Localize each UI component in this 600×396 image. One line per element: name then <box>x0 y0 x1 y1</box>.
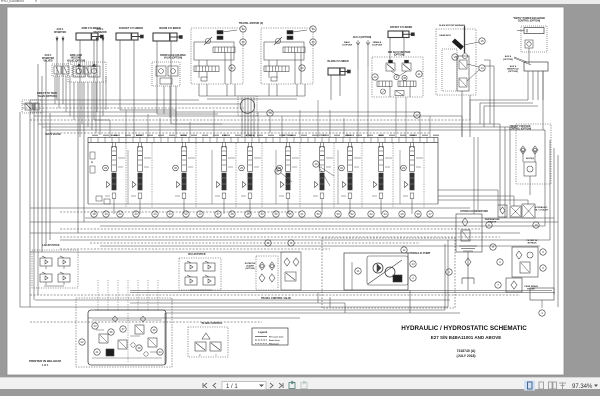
ref circle 30 <box>173 165 179 171</box>
two page icon <box>549 382 557 389</box>
svg-text:25: 25 <box>246 212 250 216</box>
wire <box>527 71 529 100</box>
main valve section RH TRAVEL <box>279 143 299 215</box>
svg-text:20: 20 <box>118 212 122 216</box>
ref circle 13 <box>410 261 416 267</box>
pilot cap <box>133 182 137 188</box>
svg-text:33: 33 <box>260 212 264 216</box>
2nd aux spool right <box>398 81 416 87</box>
wire <box>77 82 79 233</box>
section side links <box>326 157 333 159</box>
diverter valve V2 <box>74 64 96 76</box>
spool RH TRAVEL <box>286 173 290 190</box>
pilot wire <box>157 280 159 310</box>
port tick marks <box>91 137 434 142</box>
port label row <box>92 135 439 136</box>
ref circle 37 <box>120 326 126 332</box>
pilot cap <box>374 182 378 188</box>
pilot riser <box>125 143 127 208</box>
travel spool valve <box>213 47 235 53</box>
wire <box>119 40 121 110</box>
check valve <box>465 258 471 266</box>
ref circle 36 <box>315 211 321 217</box>
main valve top rail <box>88 136 438 138</box>
wire <box>90 242 420 244</box>
fit page icon <box>539 382 544 389</box>
svg-text:VALVE (OPTION): VALVE (OPTION) <box>37 95 56 98</box>
spring cap <box>410 193 414 199</box>
spool AUX <box>379 173 383 190</box>
spool 2ND AUX <box>348 173 352 190</box>
ref circle 9 <box>288 240 294 246</box>
spool BOOM <box>182 173 186 190</box>
svg-text:45: 45 <box>403 76 407 80</box>
ref circle 37 <box>275 168 281 174</box>
ref circle 38 <box>136 345 142 351</box>
wire <box>329 110 331 137</box>
section side links <box>188 157 195 159</box>
leader <box>514 58 531 65</box>
svg-text:74: 74 <box>241 27 245 31</box>
wire <box>247 115 249 137</box>
wire <box>163 86 165 114</box>
ref circle 34 <box>382 211 388 217</box>
wire <box>29 100 31 307</box>
svg-text:TRAVEL CONTROL VALVE: TRAVEL CONTROL VALVE <box>261 297 291 300</box>
svg-text:"DEITH" POWER EXCHANGE: "DEITH" POWER EXCHANGE <box>513 17 546 20</box>
ref circle 25 <box>239 165 245 171</box>
ref circle 21 <box>299 211 305 217</box>
ref circle 12 <box>183 211 189 217</box>
svg-text:24: 24 <box>153 212 157 216</box>
spring cap <box>138 193 142 199</box>
svg-text:28: 28 <box>230 212 234 216</box>
svg-text:ARM CYLINDER: ARM CYLINDER <box>81 27 100 30</box>
svg-text:R/H JOYSTICK: R/H JOYSTICK <box>188 253 206 256</box>
ref circle 24 <box>167 211 173 217</box>
pilot riser <box>195 143 197 208</box>
wire <box>49 113 51 240</box>
pilot cap <box>405 182 409 188</box>
wire <box>73 82 75 120</box>
svg-text:BLADE CYLINDER: BLADE CYLINDER <box>327 60 348 63</box>
wire <box>198 84 200 96</box>
svg-text:AUX 4: AUX 4 <box>505 55 512 58</box>
travel valve check valves <box>113 316 118 322</box>
svg-text:ARM LOAD: ARM LOAD <box>70 54 83 57</box>
arrow <box>96 38 98 41</box>
svg-text:BLADE: BLADE <box>111 134 118 137</box>
ref circle 23 <box>133 211 139 217</box>
svg-text:23: 23 <box>134 212 138 216</box>
power exchange control <box>517 26 547 64</box>
main valve section LH TRAVEL <box>241 143 261 215</box>
wire <box>543 129 545 131</box>
ref circle 24 <box>157 349 163 355</box>
wire <box>493 66 495 127</box>
ref circle 7 <box>495 282 501 288</box>
svg-text:16: 16 <box>453 55 457 59</box>
ref circle 30 <box>335 211 341 217</box>
aux4 manifold <box>524 62 548 71</box>
arm load holding valve <box>68 62 106 82</box>
pilot riser <box>361 143 363 208</box>
last page button <box>279 383 283 388</box>
spring cap <box>248 193 252 199</box>
main valve section SLEW <box>403 143 423 215</box>
svg-text:43: 43 <box>311 40 315 44</box>
wire <box>483 106 485 127</box>
ref circle 13 <box>197 211 203 217</box>
spring cap <box>286 193 290 199</box>
svg-text:23: 23 <box>93 324 97 328</box>
wire <box>37 64 39 295</box>
ref circle 6 <box>486 222 492 228</box>
pilot cap <box>217 182 221 188</box>
wire <box>30 321 262 323</box>
svg-text:30: 30 <box>174 166 178 170</box>
svg-text:40: 40 <box>373 75 377 79</box>
check valve <box>532 146 538 154</box>
wire <box>56 36 58 64</box>
svg-text:41: 41 <box>417 72 421 76</box>
svg-text:(OPTION): (OPTION) <box>503 59 513 61</box>
ref circle 5 <box>540 265 546 271</box>
svg-text:2ND AUX FUNCTION: 2ND AUX FUNCTION <box>388 51 411 54</box>
ref circle 15 <box>479 38 485 44</box>
pilot riser <box>423 143 425 208</box>
ref circle 45 <box>402 75 407 80</box>
svg-text:36: 36 <box>316 212 320 216</box>
ref circle 29 <box>399 211 405 217</box>
ref circle 21 <box>94 349 100 355</box>
svg-text:35: 35 <box>288 212 292 216</box>
wire <box>34 115 462 117</box>
ref circle 14 <box>479 65 485 71</box>
wire <box>30 232 520 234</box>
ref circle 24 <box>152 211 158 217</box>
legend box <box>252 328 288 346</box>
coupler relief valve <box>524 162 536 176</box>
wire <box>304 84 306 96</box>
svg-text:SLEW: SLEW <box>409 135 415 137</box>
ref circle 18 <box>91 211 97 217</box>
wire <box>46 129 543 131</box>
wire <box>164 313 166 365</box>
main valve right edge <box>437 137 439 204</box>
rotate icon 2 (disabled) <box>301 381 307 389</box>
wire <box>296 84 298 96</box>
svg-text:78: 78 <box>268 111 272 115</box>
section side links <box>144 157 151 159</box>
ref circle 1 <box>446 269 452 275</box>
wire <box>30 119 470 121</box>
wire <box>175 86 177 122</box>
pilot cap <box>343 182 347 188</box>
wire <box>276 84 278 96</box>
blade cylinder <box>328 68 350 75</box>
svg-text:13: 13 <box>411 262 415 266</box>
svg-text:22: 22 <box>80 340 84 344</box>
main valve section BUCKET <box>131 143 151 215</box>
wire <box>88 317 300 319</box>
wire <box>30 251 300 253</box>
svg-text:GEAR BOX: GEAR BOX <box>439 34 451 37</box>
next page button <box>270 383 273 388</box>
spool ARM <box>222 173 226 190</box>
svg-text:13: 13 <box>198 212 202 216</box>
svg-text:HOLDING: HOLDING <box>71 58 82 60</box>
main valve section OFFSET <box>313 143 333 215</box>
ref circle 5 <box>540 249 546 255</box>
svg-text:SLEW MOTOR W/BRAKE: SLEW MOTOR W/BRAKE <box>439 24 466 27</box>
svg-text:VALVES: VALVES <box>43 60 53 63</box>
wire <box>22 107 244 109</box>
page number input <box>222 382 266 390</box>
ref circle 29 <box>401 165 407 171</box>
section side links <box>385 157 392 159</box>
wire <box>367 66 369 137</box>
svg-text:10: 10 <box>534 223 538 227</box>
wire <box>438 195 514 197</box>
ref circle 35 <box>151 327 157 333</box>
wire <box>87 82 89 127</box>
pilot riser <box>392 143 394 208</box>
wire <box>41 76 43 252</box>
travel control valve assembly <box>76 298 172 367</box>
drain riser <box>127 150 129 204</box>
wire <box>257 112 259 137</box>
svg-text:97.34%: 97.34% <box>572 384 593 390</box>
filter with bypass <box>512 247 538 277</box>
wire <box>403 38 405 56</box>
section side links <box>254 157 261 159</box>
wire <box>419 112 421 137</box>
right travel motor <box>261 28 313 84</box>
single page view (active) <box>524 381 535 391</box>
svg-text:HYDRAULIC: HYDRAULIC <box>535 206 548 209</box>
wire <box>461 116 463 137</box>
wire <box>542 71 544 100</box>
svg-text:39: 39 <box>416 212 420 216</box>
wire <box>83 82 85 222</box>
svg-text:29: 29 <box>402 166 406 170</box>
wire <box>133 40 135 137</box>
ref circle 32 <box>349 211 355 217</box>
wire <box>35 299 450 301</box>
section side links <box>118 157 125 159</box>
wire <box>85 217 554 219</box>
ref circle 19 <box>103 211 109 217</box>
wire <box>58 76 60 108</box>
hydraulic pump assembly <box>344 253 408 290</box>
pilot wire <box>97 280 99 310</box>
coupler control block <box>516 124 551 195</box>
wire <box>330 75 332 100</box>
pilot wire <box>127 280 129 310</box>
ref circle 35 <box>287 211 293 217</box>
wire <box>81 82 83 124</box>
wire <box>299 110 301 137</box>
spool BLADE <box>112 173 116 190</box>
wire <box>357 70 359 137</box>
spring cap <box>320 193 324 199</box>
wire <box>537 71 539 100</box>
first page button <box>203 383 207 388</box>
svg-text:26: 26 <box>274 212 278 216</box>
ref circle 25 <box>245 211 251 217</box>
ref circle 33 <box>103 165 109 171</box>
ref circle 16 <box>452 54 458 60</box>
wire <box>438 189 498 191</box>
svg-text:74: 74 <box>311 27 315 31</box>
wire <box>281 116 283 137</box>
wire <box>557 155 559 307</box>
pilot wire <box>117 280 119 310</box>
svg-text:(OPTION): (OPTION) <box>508 71 518 73</box>
ref circle 41 <box>416 71 422 77</box>
wire <box>170 41 172 124</box>
leader <box>281 173 292 182</box>
wire <box>395 97 397 137</box>
main valve left edge <box>87 137 89 204</box>
svg-text:30: 30 <box>336 212 340 216</box>
wire <box>409 290 411 313</box>
wire <box>509 130 511 205</box>
ref circle 12 <box>401 247 407 253</box>
leader <box>467 70 479 81</box>
ref circle 42 <box>229 65 235 71</box>
wire <box>344 303 346 313</box>
wire <box>60 239 550 241</box>
svg-text:Pressure Line: Pressure Line <box>269 337 284 339</box>
svg-text:18: 18 <box>92 212 96 216</box>
section side links <box>416 157 423 159</box>
arrow <box>62 38 64 41</box>
ref circle 78 <box>267 110 273 116</box>
pilot riser <box>235 143 237 208</box>
wire <box>94 119 110 121</box>
svg-text:HYDRAULIC RESERVOIR: HYDRAULIC RESERVOIR <box>460 210 488 213</box>
wire <box>244 115 246 137</box>
wire <box>60 236 500 238</box>
svg-text:MANIFOLD: MANIFOLD <box>507 68 519 71</box>
svg-text:CASE DRAIN: CASE DRAIN <box>524 285 538 288</box>
svg-text:Legend: Legend <box>258 330 268 334</box>
wire <box>125 110 127 137</box>
wire <box>175 110 177 137</box>
pilot cap <box>281 182 285 188</box>
svg-text:PRINTED IN BELGIUM: PRINTED IN BELGIUM <box>29 359 61 363</box>
wire <box>60 211 300 213</box>
wire <box>253 115 255 137</box>
ref circle 36 <box>108 329 114 335</box>
slew valve cluster <box>256 256 278 290</box>
wire <box>317 100 319 137</box>
svg-text:29: 29 <box>400 212 404 216</box>
hydraulic reservoir <box>456 214 482 252</box>
ref circle 28 <box>229 211 235 217</box>
svg-text:(JULY 2018): (JULY 2018) <box>456 354 475 358</box>
pilot riser <box>261 143 263 208</box>
wire <box>96 60 98 112</box>
wire <box>497 190 499 205</box>
blade control block <box>188 327 228 357</box>
wire <box>226 84 228 96</box>
drain riser <box>337 150 339 204</box>
right joystick <box>179 258 221 290</box>
ref circle 33 <box>259 211 265 217</box>
ref circle 10 <box>533 222 539 228</box>
wire <box>504 127 506 218</box>
svg-text:AUX3(2): AUX3(2) <box>526 157 534 160</box>
wire <box>99 82 101 135</box>
spool SLEW <box>410 173 414 190</box>
ref circle 23 <box>92 323 98 329</box>
main valve section BLADE <box>105 143 125 215</box>
svg-text:42: 42 <box>300 66 304 70</box>
wire <box>405 97 407 137</box>
ref circle 42 <box>299 65 305 71</box>
wire <box>467 252 469 290</box>
rotate icon <box>289 381 295 389</box>
svg-text:(OPTION): (OPTION) <box>394 55 405 57</box>
wire <box>484 65 494 67</box>
wire <box>130 302 345 304</box>
pilot riser <box>333 143 335 208</box>
wire <box>470 99 528 101</box>
swivel joint <box>238 96 257 116</box>
wire <box>477 137 479 210</box>
bucket cylinder <box>116 33 143 40</box>
wire <box>241 115 243 137</box>
arm cylinder <box>76 33 103 40</box>
svg-text:BUCKET: BUCKET <box>136 135 145 137</box>
wire <box>479 103 481 124</box>
svg-text:VALVE (OPTION): VALVE (OPTION) <box>164 57 183 60</box>
ref circle 43 <box>240 39 246 45</box>
svg-text:22: 22 <box>369 212 373 216</box>
main valve section AUX <box>372 143 392 215</box>
ref circle 74 <box>240 26 246 32</box>
ref circle 2 <box>410 275 416 281</box>
wire <box>100 225 545 227</box>
svg-text:38: 38 <box>137 346 141 350</box>
svg-text:11: 11 <box>357 269 360 273</box>
drain riser <box>275 150 277 204</box>
svg-text:36: 36 <box>109 330 113 334</box>
svg-text:COUPLER: COUPLER <box>372 45 383 47</box>
svg-text:P3: P3 <box>91 162 93 164</box>
wire <box>130 292 555 294</box>
ref circle 20 <box>117 211 123 217</box>
wire <box>22 103 241 105</box>
check valve <box>520 146 526 154</box>
wire <box>473 137 475 214</box>
ref circle 16 <box>265 240 271 246</box>
svg-text:25: 25 <box>240 166 244 170</box>
ref circle 26 <box>277 165 283 171</box>
svg-text:MAIN VALVE: MAIN VALVE <box>45 132 61 136</box>
pilot wire <box>147 280 149 310</box>
ref circle 3 <box>539 310 545 316</box>
wire <box>91 82 93 130</box>
wire <box>38 123 500 125</box>
svg-text:21: 21 <box>300 212 304 216</box>
ref circle 9 <box>394 74 399 79</box>
wire <box>20 306 448 308</box>
ref circle 4 <box>497 259 503 265</box>
